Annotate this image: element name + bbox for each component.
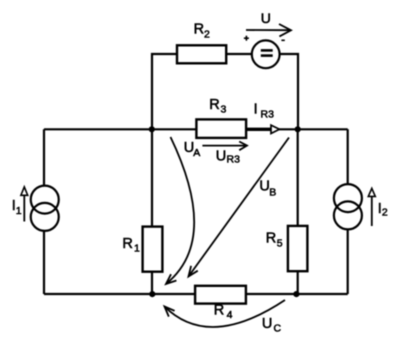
- wire right outer vertical: [347, 129, 349, 294]
- voltage arrow U_R3: [202, 145, 245, 147]
- wire inner right vertical (R5 branch): [297, 129, 299, 294]
- svg-text:R3: R3: [227, 153, 241, 165]
- current arrow I1: [23, 195, 25, 222]
- svg-text:C: C: [274, 322, 282, 334]
- voltage source U1: [252, 40, 280, 68]
- resistor R2: [177, 45, 226, 63]
- svg-text:U: U: [216, 149, 226, 165]
- svg-text:R: R: [209, 97, 219, 113]
- wire middle horizontal line: [44, 128, 348, 130]
- svg-text:3: 3: [221, 104, 227, 116]
- svg-text:5: 5: [277, 238, 283, 250]
- current arrow I_R3: [247, 128, 271, 131]
- svg-text:R: R: [266, 230, 276, 246]
- svg-text:A: A: [193, 147, 200, 159]
- wire bottom horizontal line: [44, 293, 348, 295]
- junction node bottom-left: [149, 291, 155, 297]
- resistor R3: [196, 119, 246, 137]
- wire top line between R2 and source U: [226, 53, 253, 55]
- svg-text:2: 2: [204, 29, 210, 41]
- svg-text:U: U: [261, 10, 271, 26]
- current source I1: [31, 186, 59, 214]
- junction node bottom-right: [293, 291, 299, 297]
- wire inner left vertical (R1 branch): [151, 129, 153, 294]
- resistor R4: [195, 286, 246, 304]
- svg-text:B: B: [269, 187, 276, 199]
- voltage arc U_C: [165, 300, 286, 327]
- wire left outer vertical: [43, 129, 45, 294]
- svg-text:R3: R3: [261, 109, 275, 121]
- current source I2: [334, 184, 362, 212]
- wire top line left segment: [152, 54, 177, 129]
- svg-text:4: 4: [227, 309, 233, 321]
- svg-text:1: 1: [16, 205, 22, 217]
- minus sign: [281, 39, 284, 41]
- wire top line right segment: [280, 54, 299, 129]
- svg-text:2: 2: [382, 207, 388, 219]
- resistor R5: [288, 226, 308, 271]
- svg-text:R: R: [122, 236, 132, 252]
- current arrow I2: [371, 196, 373, 226]
- voltage arc U_A: [166, 137, 194, 284]
- resistor R1: [143, 227, 163, 272]
- svg-text:1: 1: [134, 243, 140, 255]
- junction node top-left: [149, 126, 155, 132]
- junction node top-right: [295, 126, 301, 132]
- svg-text:I: I: [254, 102, 258, 118]
- svg-text:R: R: [194, 22, 204, 38]
- svg-text:R: R: [214, 303, 224, 319]
- plus sign: [244, 37, 249, 39]
- voltage arrow U: [246, 29, 290, 31]
- svg-text:U: U: [262, 316, 272, 332]
- voltage arrow U_B: [189, 138, 290, 277]
